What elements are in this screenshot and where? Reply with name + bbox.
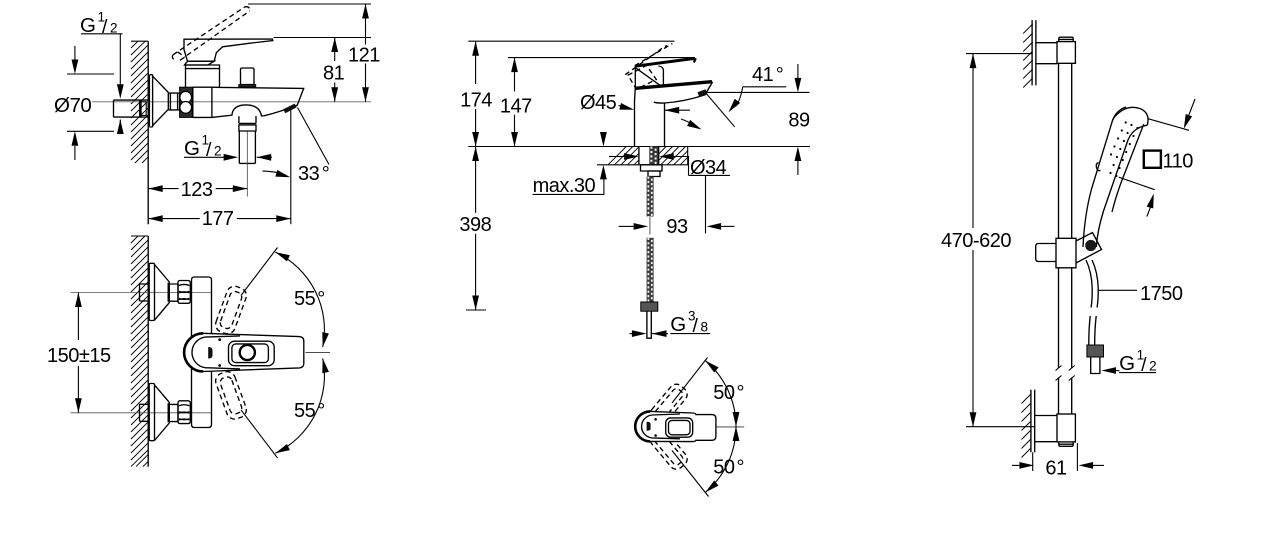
hose axis tick in break (649, 217, 651, 235)
escutcheon top (front) (149, 263, 154, 320)
GROUP: right shower rail (941, 20, 1195, 479)
ring cylinder (168, 93, 179, 110)
wall hatch top-left (131, 41, 148, 163)
svg-text:33°: 33° (298, 163, 329, 185)
hex nut top (front) (178, 281, 190, 304)
lever front face edge (659, 66, 664, 85)
svg-text:174: 174 (460, 90, 492, 112)
square110 label (1144, 151, 1161, 168)
wall face line (147, 41, 149, 224)
opposing up arrow under pipe (119, 120, 121, 134)
pipe stub bottom (140, 404, 149, 421)
escutcheon cone (153, 76, 169, 125)
svg-text:93: 93 (666, 216, 688, 238)
valve cylinder (193, 87, 212, 117)
spout tip and underside (654, 82, 713, 103)
hose end fitting (641, 302, 658, 311)
dashed lever down (front) (213, 369, 248, 421)
body column (front) (192, 277, 212, 428)
55 degree leader bottom (241, 410, 278, 458)
centerline (92, 101, 371, 103)
dashed lever rotated up (top view) (647, 381, 690, 427)
GROUP: middle basin mixer (459, 41, 810, 338)
svg-text:Ø70: Ø70 (54, 94, 91, 117)
braided hose lower part (647, 238, 654, 302)
wall face line (147, 236, 149, 467)
svg-text:41°: 41° (752, 64, 783, 86)
svg-text:2: 2 (1149, 359, 1157, 374)
svg-text:G: G (670, 313, 685, 336)
threaded hose in shank (speckled) (649, 147, 658, 165)
supply pipe in wall (114, 100, 149, 117)
svg-text:G: G (1119, 352, 1134, 375)
centerline bottom connection (71, 412, 212, 414)
body and spout (212, 87, 304, 117)
svg-text:177: 177 (202, 208, 234, 230)
rail break marks (1056, 366, 1075, 381)
bottom bracket arm (1035, 416, 1058, 442)
GROUP: bottom-left front view (47, 236, 330, 467)
110 bottom plane line and arrow (1119, 177, 1155, 190)
solid lever (top view) (635, 411, 716, 441)
svg-text:398: 398 (459, 214, 491, 236)
svg-text:2: 2 (214, 144, 222, 159)
svg-text:55°: 55° (294, 288, 325, 310)
GROUP: top-left side view (54, 4, 380, 230)
55 degree arc bottom (275, 358, 324, 453)
svg-text:50°: 50° (713, 382, 744, 404)
svg-text:Ø45: Ø45 (580, 92, 617, 114)
top bracket cap (1059, 37, 1073, 41)
dimension 61 (1032, 452, 1034, 471)
escutcheon flange (149, 75, 152, 127)
svg-text:50°: 50° (713, 457, 744, 479)
svg-text:121: 121 (348, 45, 380, 67)
aerator mousseur (283, 104, 297, 114)
hose end fitting (1087, 345, 1104, 357)
hose (1086, 260, 1098, 308)
mounting nut (641, 165, 663, 171)
dashed lever raised (middle) (625, 44, 672, 90)
50 degree arc top (705, 361, 736, 427)
union hex nut (180, 87, 193, 117)
slot mark (647, 422, 651, 431)
svg-text:470-620: 470-620 (941, 230, 1011, 252)
solid lever blade top (thick) (635, 58, 694, 66)
lever circle (240, 345, 255, 360)
small dots (218, 338, 221, 341)
lever slot mark (208, 347, 212, 359)
svg-text:/: / (102, 16, 108, 38)
dashed lever (raised) (172, 7, 249, 61)
escutcheon bottom (front) (149, 384, 154, 441)
svg-text:8: 8 (701, 320, 709, 335)
50 degree arc bottom (705, 427, 736, 493)
svg-text:123: 123 (181, 179, 213, 201)
deck bottom line (597, 147, 688, 165)
bottom bracket cap (1059, 442, 1073, 446)
dashed lever rotated down (top view) (647, 426, 690, 472)
rail upper (1059, 64, 1072, 239)
centerline top connection (71, 292, 212, 294)
cartridge column (186, 65, 220, 87)
G1/2 tail (1091, 357, 1100, 374)
svg-text:110: 110 (1163, 151, 1194, 173)
svg-text:61: 61 (1045, 458, 1067, 480)
svg-text:55°: 55° (294, 400, 325, 422)
top bracket clamp (1057, 42, 1075, 64)
mousseur middle (698, 89, 708, 97)
110 top plane line and arrow (1148, 119, 1189, 131)
solid lever (184, 39, 273, 61)
faucet body (635, 66, 665, 147)
deck section hatch (608, 147, 688, 165)
svg-text:89: 89 (788, 110, 810, 132)
hand shower body (1096, 125, 1147, 247)
cylinder top (169, 284, 178, 301)
svg-text:81: 81 (323, 63, 345, 85)
dashed lever up (front) (213, 284, 248, 336)
rail lower (1059, 268, 1072, 414)
svg-text:max.30: max.30 (533, 175, 596, 197)
spray dots (1109, 121, 1138, 177)
top wall (1032, 20, 1036, 85)
cylinder bottom (169, 404, 178, 421)
svg-text:G: G (184, 137, 199, 160)
solid lever (front) (184, 333, 304, 371)
33 degree leader (298, 108, 330, 165)
top bracket arm (1035, 43, 1057, 64)
lever plate (229, 341, 275, 366)
shank through deck (639, 147, 659, 165)
diverter knob (241, 68, 255, 85)
svg-text:147: 147 (500, 95, 532, 117)
50 degree leader bottom (672, 451, 709, 497)
centerline (717, 426, 745, 428)
dimension 470-620 (966, 53, 1033, 55)
centerline right of lever (306, 352, 331, 354)
shower button (1096, 163, 1100, 171)
shower face inner line (1112, 124, 1144, 212)
55 degree arc top (275, 252, 324, 347)
hex nut bottom (front) (178, 401, 190, 424)
50 degree leader top (672, 358, 708, 404)
label 1750 (1099, 289, 1138, 291)
bottom bracket clamp (1057, 414, 1075, 442)
GROUP: middle top view (635, 358, 744, 497)
plate (top view) (666, 418, 693, 437)
svg-text:1750: 1750 (1140, 283, 1183, 305)
glide bracket (1036, 244, 1056, 262)
G3/8 tail (647, 311, 651, 338)
leader G1/2 with down arrow to pipe (119, 34, 121, 85)
dimension 147 (508, 57, 695, 59)
outlet axis (246, 132, 248, 197)
bottom wall (1031, 390, 1035, 453)
right extension line (290, 109, 292, 224)
svg-text:150±15: 150±15 (47, 345, 111, 367)
pipe stub top (140, 284, 149, 301)
shower outlet tube (239, 116, 256, 123)
wall hatch bottom-left (131, 236, 148, 467)
spout top edge (thick) (635, 82, 712, 89)
55 degree leader top (241, 248, 278, 296)
deck surface line (468, 146, 810, 148)
lever cone base (185, 61, 215, 65)
lever grip edge (636, 68, 662, 86)
braided hose upper part (647, 177, 654, 217)
dots (654, 418, 657, 421)
dimension 174 (468, 40, 674, 42)
